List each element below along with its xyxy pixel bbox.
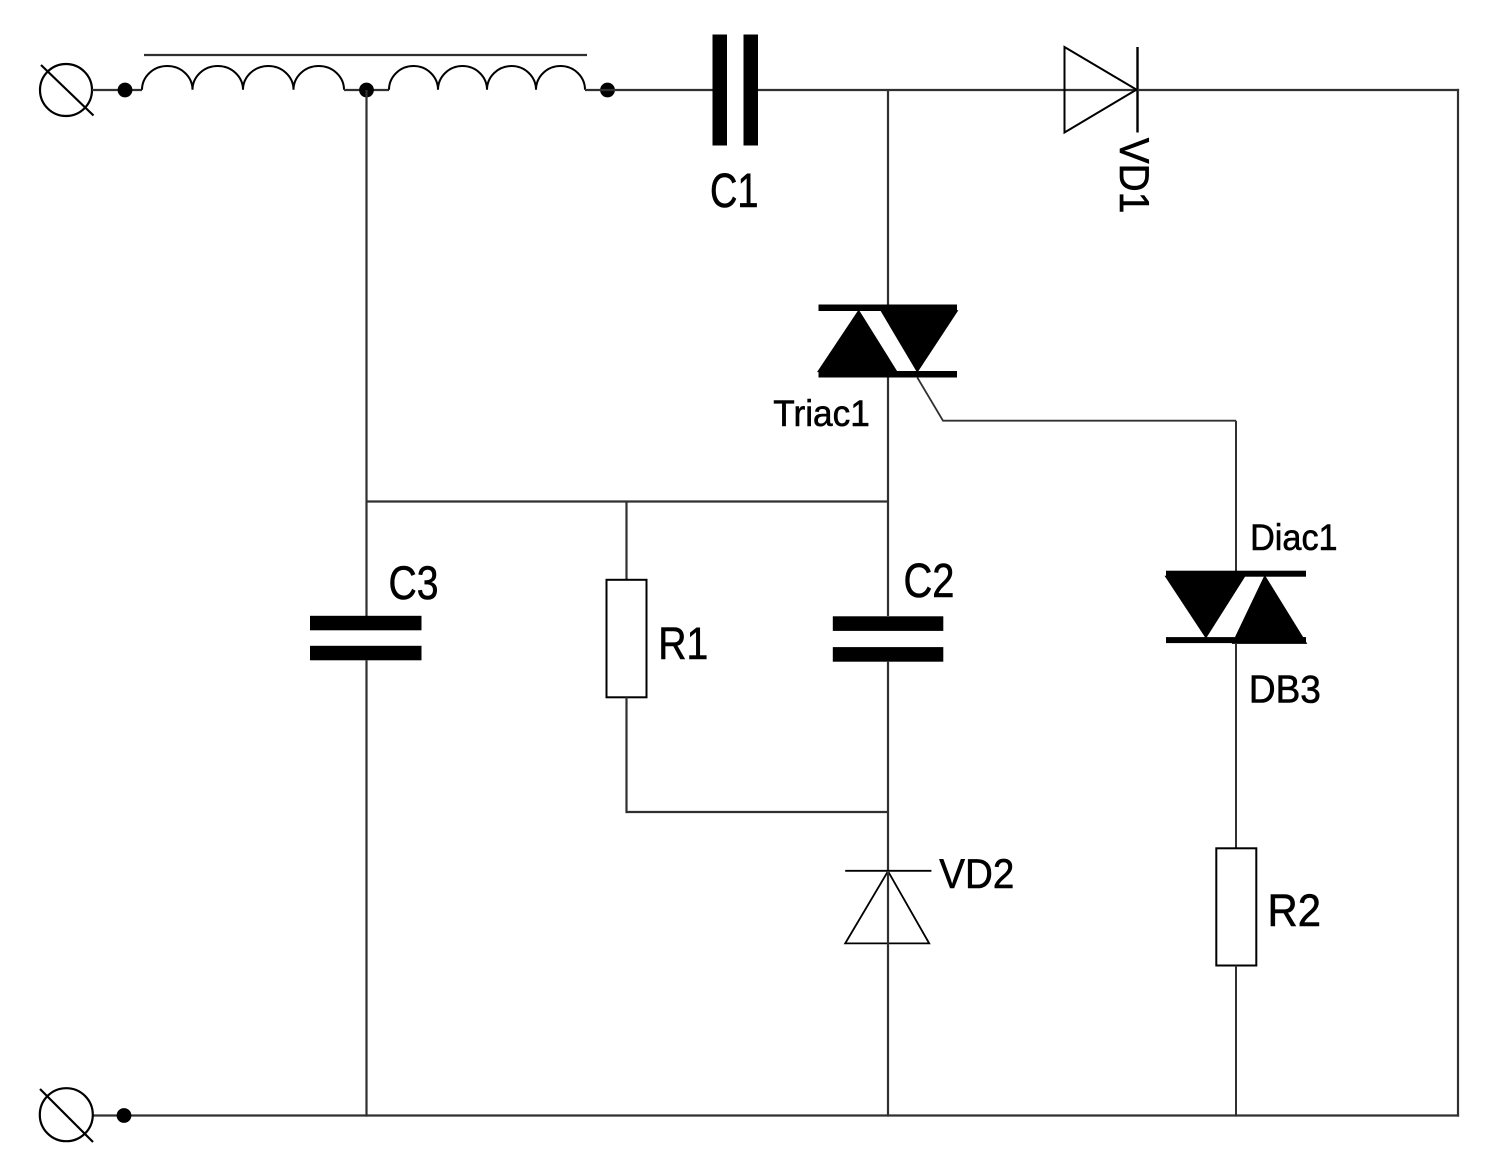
- inductor L1 winding 2: [389, 66, 585, 90]
- wire VD2 to bottom rail: [887, 871, 889, 1117]
- wire triac to C2 (mid vertical): [887, 378, 889, 617]
- capacitor C2 plates: [833, 616, 944, 661]
- svg-text:VD1: VD1: [1111, 138, 1158, 214]
- diac DB3: [1166, 571, 1306, 643]
- wire horizontal tap-to-triac branch: [367, 500, 889, 502]
- svg-text:DB3: DB3: [1249, 669, 1321, 712]
- wire R2 to bottom rail: [1235, 966, 1237, 1117]
- diode VD2 (zener pointing up): [845, 871, 931, 944]
- wire inductor to C1: [585, 89, 713, 91]
- bottom rail wire: [92, 1114, 1459, 1116]
- svg-text:C1: C1: [710, 165, 759, 218]
- svg-text:VD2: VD2: [939, 850, 1014, 897]
- wire R1 to C2 branch (horizontal): [627, 811, 889, 813]
- wire C2 bottom to VD2: [887, 662, 889, 871]
- svg-text:Triac1: Triac1: [773, 393, 870, 434]
- wire triac gate lead: [917, 378, 1236, 421]
- node dot (top-left junction): [118, 83, 133, 98]
- triac Triac1: [819, 305, 958, 378]
- wire center-tap vertical (to C3): [365, 90, 367, 616]
- resistor R2: [1216, 848, 1256, 965]
- wire C1 to VD1: [758, 89, 1138, 91]
- wire R1 top lead: [625, 502, 627, 580]
- wire R1 bottom lead: [625, 697, 627, 813]
- inductor L1 winding 1: [142, 66, 344, 90]
- svg-text:R1: R1: [658, 618, 708, 669]
- terminal X1 (top left input): [40, 64, 94, 116]
- wire terminal to node: [92, 89, 142, 91]
- capacitor C1 plates: [713, 35, 759, 146]
- svg-text:C3: C3: [389, 556, 439, 609]
- wire VD1 to top-right corner: [1138, 89, 1460, 91]
- node dot (inductor center tap): [359, 83, 374, 98]
- wire (main mid vertical, top section to triac): [887, 90, 889, 305]
- wire winding1 to winding2: [344, 89, 389, 91]
- terminal X2 (bottom left): [40, 1088, 93, 1142]
- wire right-edge vertical: [1457, 89, 1459, 1117]
- svg-text:C2: C2: [904, 555, 955, 608]
- wire diac to R2: [1235, 643, 1237, 848]
- wire gate to diac (vertical): [1235, 421, 1237, 571]
- svg-text:Diac1: Diac1: [1250, 517, 1338, 558]
- svg-text:R2: R2: [1268, 885, 1322, 936]
- resistor R1: [607, 580, 647, 698]
- inductor L1 core line: [144, 54, 587, 56]
- diode VD1: [1065, 47, 1138, 133]
- node dot (bottom left): [117, 1108, 132, 1123]
- capacitor C3 plates: [310, 616, 422, 661]
- node dot (inductor right): [600, 83, 615, 98]
- wire C3 bottom to bottom rail: [365, 660, 367, 1116]
